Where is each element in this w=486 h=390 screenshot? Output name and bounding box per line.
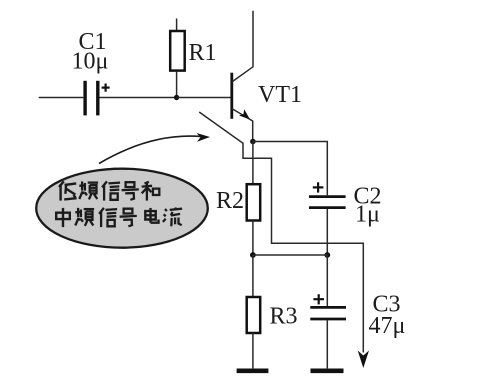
- wire C3 top stub: [326, 255, 328, 306]
- wire R3 bottom: [252, 333, 254, 368]
- svg-text:R1: R1: [189, 40, 217, 66]
- wire R2 bottom: [252, 221, 254, 256]
- balloon text line2: 中频信号电流: [56, 208, 182, 228]
- current path arrowhead down: [358, 351, 369, 369]
- emitter arrowhead: [239, 109, 250, 119]
- ground under R3: [237, 368, 269, 373]
- transistor VT1 base bar: [230, 73, 233, 119]
- svg-text:1μ: 1μ: [355, 202, 380, 228]
- wire R1 bottom: [176, 71, 178, 98]
- capacitor C2: [309, 197, 346, 208]
- capacitor C1: [85, 81, 98, 116]
- transistor VT1 emitter: [232, 109, 253, 142]
- C1 plus sign: [102, 84, 110, 92]
- svg-text:10μ: 10μ: [72, 49, 109, 75]
- resistor R3: [247, 297, 261, 333]
- wire C1 to node: [100, 97, 177, 99]
- wire R3 top stub: [252, 255, 254, 297]
- ground under C3: [311, 368, 344, 373]
- balloon text line1: 低频信号和: [59, 181, 159, 200]
- wire C2 bottom: [326, 209, 328, 255]
- svg-text:VT1: VT1: [258, 82, 302, 108]
- C2 plus sign: [313, 182, 324, 192]
- node emitter junction: [250, 139, 256, 145]
- svg-text:R2: R2: [216, 188, 244, 214]
- C3 plus sign: [313, 294, 324, 304]
- node C2-C3 junction: [324, 252, 330, 258]
- wire R2 top stub: [252, 142, 254, 185]
- balloon leader curved arrow: [99, 136, 204, 163]
- capacitor C3: [310, 307, 346, 319]
- balloon ellipse: [36, 169, 208, 248]
- node base junction: [174, 95, 179, 100]
- wire emitter bus: [253, 254, 327, 256]
- svg-text:47μ: 47μ: [369, 313, 406, 339]
- svg-text:R3: R3: [270, 304, 298, 330]
- resistor R2: [247, 184, 261, 220]
- wire C3 bottom: [326, 320, 328, 368]
- current path annotation line: [199, 112, 363, 353]
- transistor VT1 collector: [232, 11, 253, 82]
- wire input left: [39, 97, 84, 99]
- balloon arrowhead: [197, 133, 211, 142]
- node R2-R3 junction: [250, 252, 256, 258]
- wire node to base: [177, 97, 231, 99]
- wire R1 top stub: [176, 19, 178, 32]
- wire emitter to C2: [253, 142, 327, 196]
- resistor R1: [170, 31, 185, 71]
